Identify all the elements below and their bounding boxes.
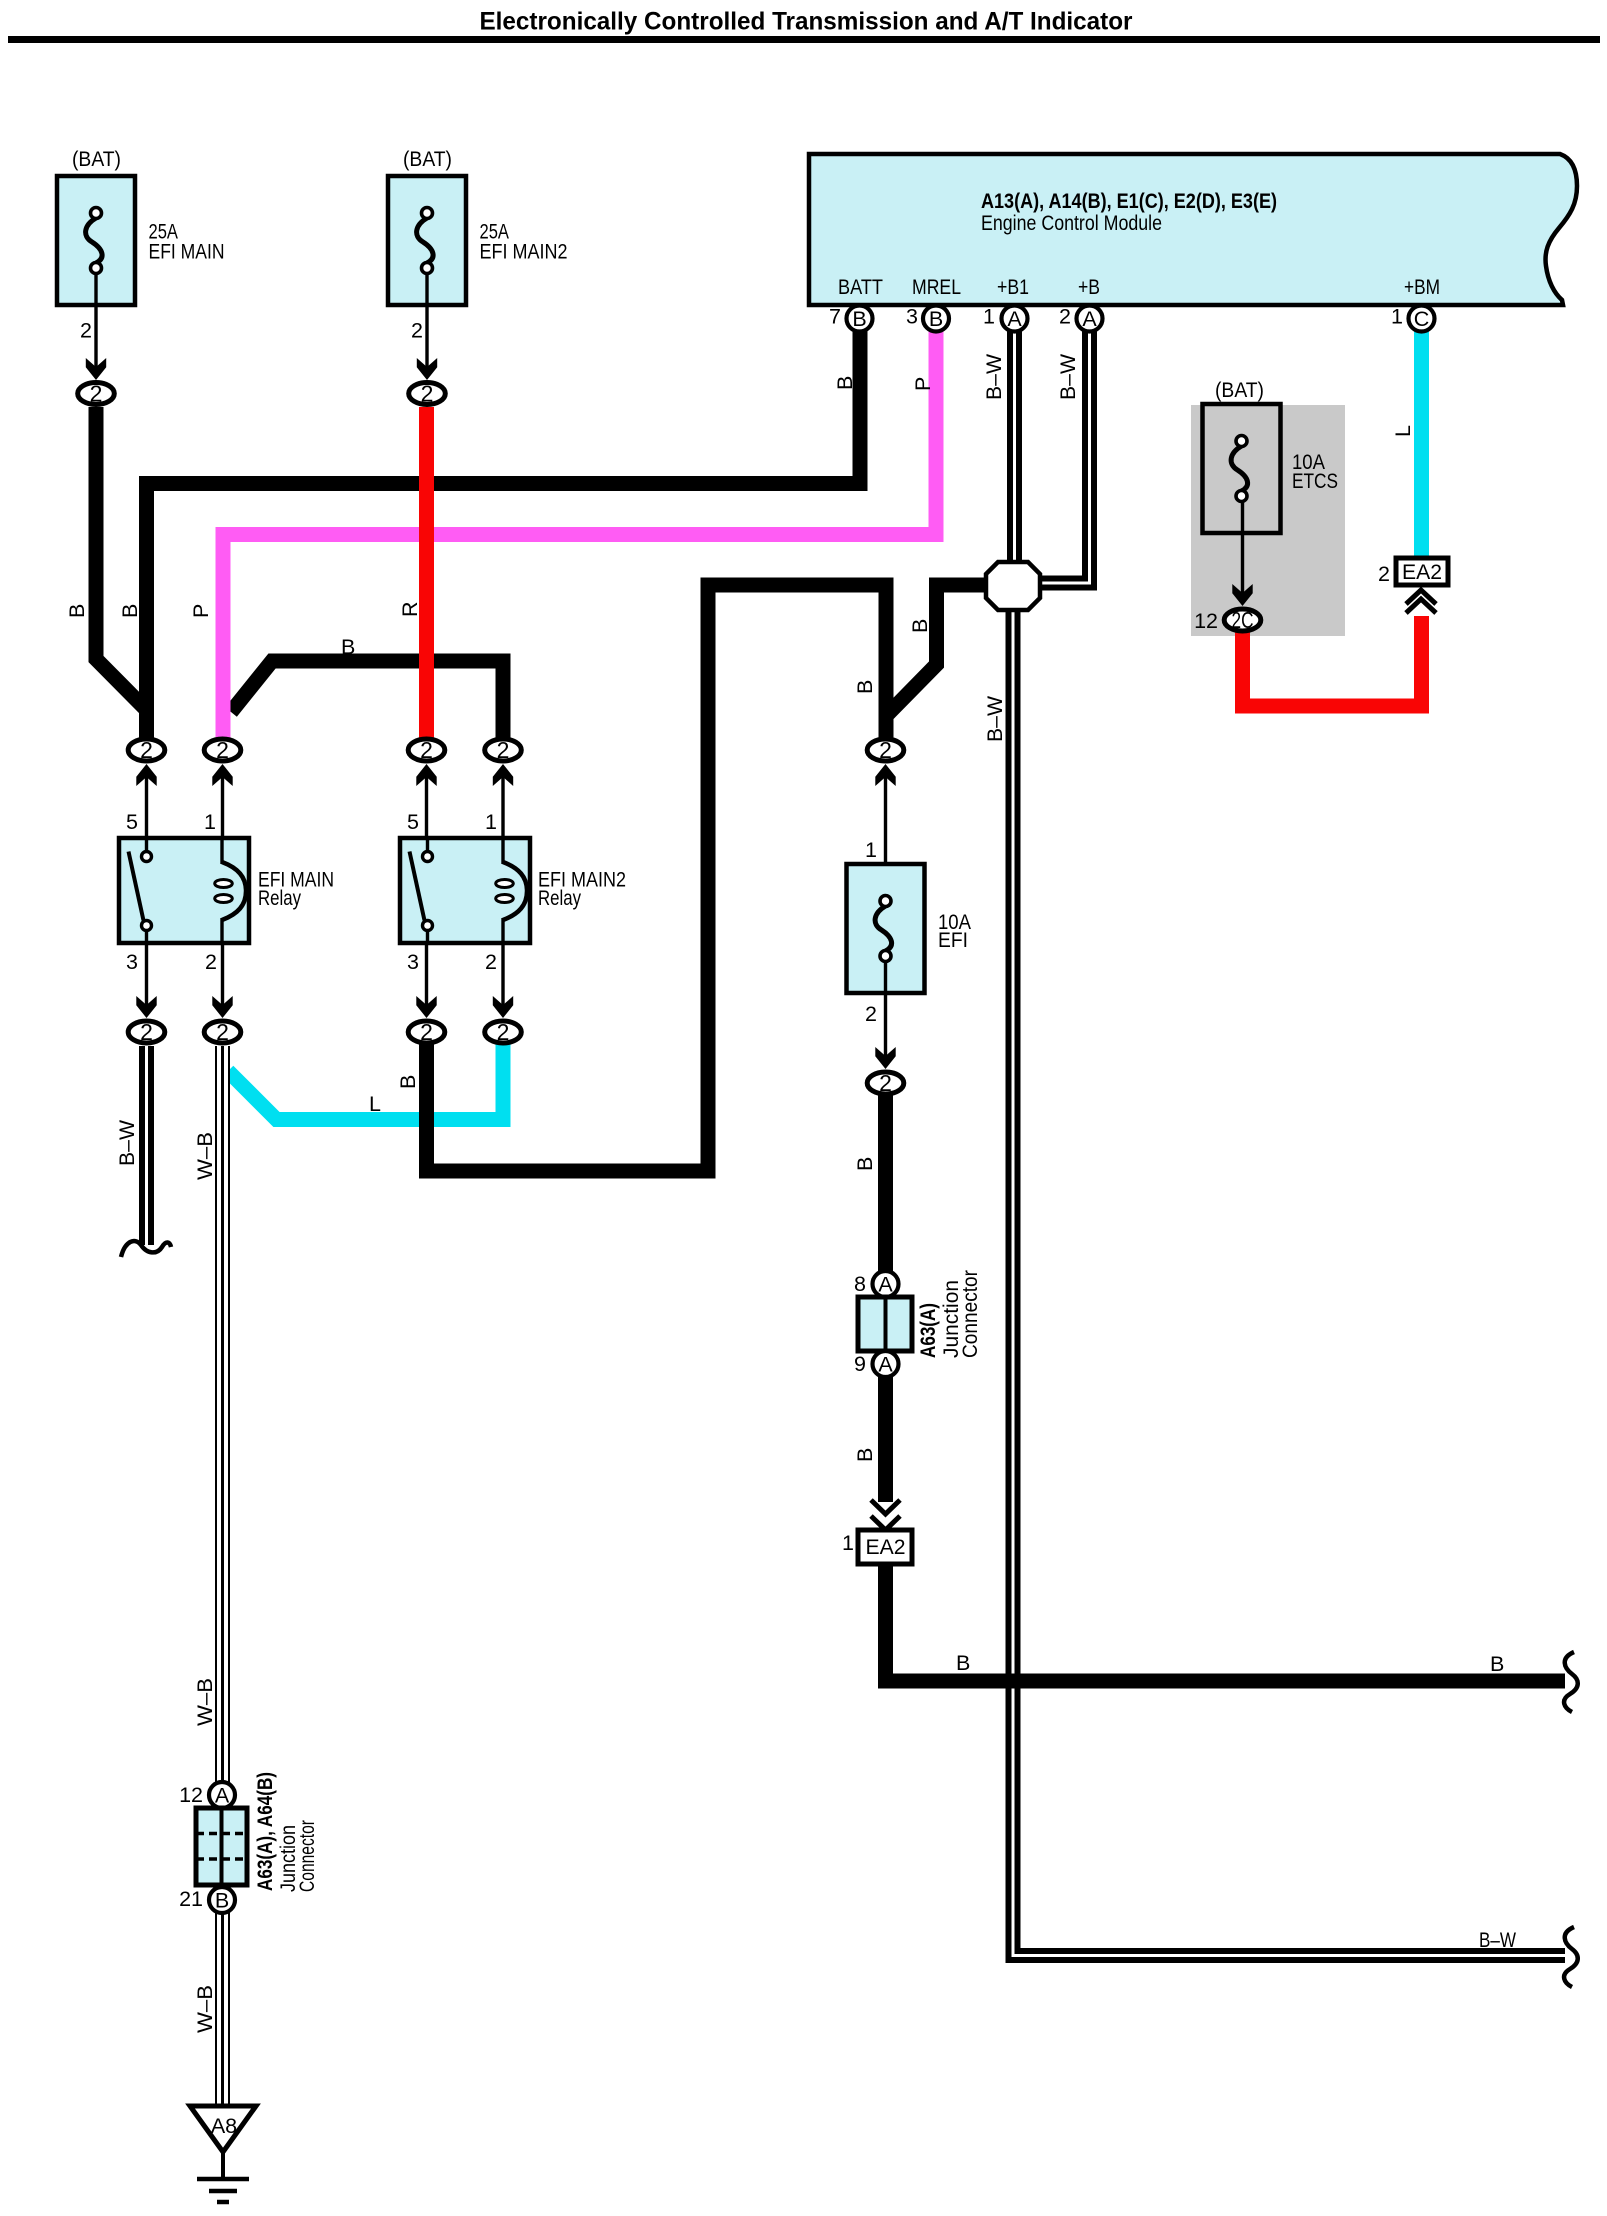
svg-text:2: 2 [497,1019,510,1045]
svg-text:ETCS: ETCS [1292,469,1338,493]
svg-text:P: P [911,377,935,391]
svg-text:2: 2 [865,1002,877,1026]
svg-text:2: 2 [216,1019,229,1045]
svg-text:3: 3 [126,950,138,974]
svg-text:A: A [1082,307,1097,331]
svg-text:B–W: B–W [982,353,1006,400]
svg-text:12: 12 [179,1783,203,1807]
svg-text:A: A [878,1273,893,1297]
svg-text:MREL: MREL [912,275,961,299]
svg-text:A63(A): A63(A) [916,1303,940,1358]
svg-text:(BAT): (BAT) [1215,378,1264,402]
svg-text:Relay: Relay [538,886,581,910]
svg-text:2: 2 [205,950,217,974]
svg-text:A13(A), A14(B), E1(C), E2(D),: A13(A), A14(B), E1(C), E2(D), E3(E) [981,189,1277,213]
svg-text:B: B [853,680,877,694]
svg-text:A: A [878,1353,893,1377]
svg-text:B: B [852,307,866,331]
svg-text:3: 3 [906,305,918,329]
svg-text:1: 1 [983,305,995,329]
svg-text:A63(A), A64(B): A63(A), A64(B) [253,1772,277,1891]
svg-text:W–B: W–B [193,1985,217,2033]
svg-text:B: B [956,1651,970,1675]
svg-text:1: 1 [842,1531,854,1555]
svg-text:3: 3 [407,950,419,974]
svg-text:2: 2 [485,950,497,974]
svg-text:EA2: EA2 [1402,560,1442,584]
svg-text:2C: 2C [1232,607,1254,633]
svg-text:2: 2 [879,737,892,763]
svg-text:12: 12 [1194,609,1218,633]
svg-text:EA2: EA2 [866,1535,906,1559]
svg-text:B: B [833,376,857,390]
svg-text:B: B [215,1889,229,1913]
svg-text:2: 2 [497,737,510,763]
svg-text:B: B [396,1075,420,1089]
svg-text:P: P [189,604,213,618]
svg-text:Connector: Connector [295,1820,319,1892]
svg-text:1: 1 [865,838,877,862]
svg-text:2: 2 [140,1019,153,1045]
svg-text:(BAT): (BAT) [72,147,121,171]
svg-text:W–B: W–B [193,1132,217,1180]
svg-text:EFI MAIN: EFI MAIN [149,240,225,264]
svg-text:2: 2 [411,319,423,343]
svg-text:B: B [1490,1652,1504,1676]
svg-text:7: 7 [829,305,841,329]
svg-text:C: C [1414,307,1430,331]
svg-text:L: L [1391,425,1415,437]
svg-text:BATT: BATT [838,275,883,299]
svg-text:9: 9 [854,1352,866,1376]
svg-text:B–W: B–W [983,695,1007,742]
svg-text:21: 21 [179,1887,203,1911]
svg-text:B–W: B–W [1056,353,1080,400]
svg-text:+BM: +BM [1404,275,1440,299]
svg-text:1: 1 [1391,305,1403,329]
svg-text:EFI: EFI [938,928,968,952]
svg-text:(BAT): (BAT) [403,147,452,171]
svg-text:B: B [929,307,943,331]
svg-text:Connector: Connector [958,1270,982,1358]
svg-text:W–B: W–B [193,1678,217,1726]
svg-text:2: 2 [421,381,434,407]
svg-text:8: 8 [854,1272,866,1296]
svg-text:+B: +B [1078,275,1100,299]
svg-text:B: B [65,604,89,618]
svg-text:B: B [118,604,142,618]
svg-text:2: 2 [420,737,433,763]
svg-text:1: 1 [204,810,216,834]
svg-text:EFI MAIN2: EFI MAIN2 [480,240,568,264]
svg-text:2: 2 [879,1070,892,1096]
svg-text:Relay: Relay [258,886,301,910]
svg-text:A: A [215,1784,230,1808]
svg-text:Engine Control Module: Engine Control Module [981,211,1162,235]
svg-text:B: B [908,619,932,633]
svg-text:2: 2 [80,319,92,343]
svg-text:5: 5 [407,810,419,834]
svg-text:2: 2 [90,381,103,407]
svg-text:A: A [1007,307,1022,331]
svg-text:B: B [853,1157,877,1171]
svg-text:2: 2 [1378,562,1390,586]
svg-text:B–W: B–W [1479,1928,1517,1952]
svg-text:B: B [853,1448,877,1462]
svg-text:L: L [369,1092,381,1116]
svg-text:B: B [341,635,355,659]
svg-text:1: 1 [485,810,497,834]
svg-text:B–W: B–W [115,1119,139,1166]
svg-text:2: 2 [1059,305,1071,329]
svg-text:+B1: +B1 [997,275,1029,299]
svg-text:A8: A8 [211,2114,237,2138]
svg-text:2: 2 [216,737,229,763]
svg-text:R: R [398,601,422,617]
svg-text:2: 2 [420,1019,433,1045]
svg-text:Electronically Controlled Tran: Electronically Controlled Transmission a… [480,8,1133,36]
svg-text:2: 2 [140,737,153,763]
svg-text:5: 5 [126,810,138,834]
